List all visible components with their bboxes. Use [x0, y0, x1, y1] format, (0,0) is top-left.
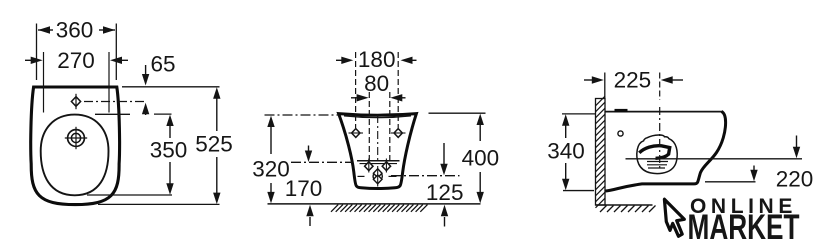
svg-text:340: 340: [547, 139, 585, 164]
hole centreline 180 right: [397, 52, 399, 128]
dimension 125: [426, 143, 464, 227]
drain vertical centreline: [659, 107, 661, 171]
svg-text:170: 170: [285, 176, 323, 201]
dimension 270 extension line left: [43, 52, 45, 113]
drain trap thick band: [639, 146, 669, 159]
front-view centreline: [377, 115, 379, 164]
upper fixing hole right: [391, 129, 406, 138]
dimension 340 top reference line: [562, 113, 596, 115]
dimension 170: [285, 146, 323, 227]
mounting hole diamond: [71, 94, 80, 109]
dimension 525: [195, 87, 233, 204]
svg-text:MARKET: MARKET: [688, 207, 800, 247]
svg-text:270: 270: [57, 48, 95, 73]
bottom level arrow: [750, 166, 757, 182]
basin shelf line: [360, 163, 398, 165]
svg-text:65: 65: [150, 52, 175, 77]
drain centre cluster: [358, 166, 397, 187]
dimension 225 tick right: [659, 73, 661, 101]
drain dash-dot extension right: [391, 175, 460, 177]
fixing bracket tab: [615, 109, 628, 113]
svg-text:350: 350: [150, 138, 188, 163]
small inlet hole: [618, 131, 623, 136]
hole centre dash-dot line: [84, 101, 147, 103]
svg-text:225: 225: [614, 67, 652, 92]
floor hatching: [600, 206, 656, 213]
tap hole symbol: [65, 127, 87, 149]
svg-text:180: 180: [358, 47, 396, 72]
outer bottom tangent line: [98, 203, 220, 205]
basin top tangent line segment a: [95, 113, 130, 115]
dimension 360 extension line right: [115, 24, 117, 81]
dimension 270: [25, 48, 128, 73]
wall hatching: [596, 96, 606, 208]
rim dash-dot extension left: [265, 114, 340, 116]
dimension 350: [150, 115, 188, 195]
dimension 360: [38, 18, 115, 43]
bidet side-view front and bottom outline: [606, 111, 726, 191]
dimension 180: [336, 47, 417, 72]
wall section outline: [596, 99, 606, 206]
dimension 340: [547, 114, 585, 190]
lower fixing hole right: [382, 159, 390, 173]
bidet top-view inner basin oval: [41, 115, 109, 196]
dimension 340 bottom reference line: [563, 190, 594, 192]
basin bottom tangent line: [87, 194, 172, 196]
dimension 225: [584, 67, 683, 92]
svg-text:525: 525: [195, 132, 233, 157]
lower fixing hole left: [365, 159, 373, 173]
bidet top-view outer outline: [31, 87, 120, 205]
waterline dash-dot extension left: [291, 161, 353, 163]
floor line under wall: [596, 204, 653, 206]
logo cursor icon: [664, 199, 684, 236]
top edge extension right: [429, 112, 486, 114]
dimension 270 extension line right: [108, 52, 110, 113]
hole centreline 80 left: [368, 92, 370, 160]
bidet front-view outline: [339, 114, 417, 189]
svg-text:400: 400: [462, 146, 500, 171]
hole centreline 80 right: [389, 92, 391, 160]
dimension 225 tick left: [604, 73, 606, 99]
dimension 65: [142, 52, 176, 116]
front-view rim inner arc: [344, 116, 411, 118]
svg-text:80: 80: [364, 71, 389, 96]
drain trap outline: [637, 135, 677, 174]
top edge extension line: [122, 86, 220, 88]
drain trap rings: [647, 162, 668, 169]
dimension 400: [462, 114, 500, 204]
ground line: [268, 203, 481, 205]
ground hatching: [331, 205, 428, 212]
bottom edge extension line: [705, 181, 756, 183]
svg-text:125: 125: [426, 180, 464, 205]
basin top tangent line segment b: [154, 113, 172, 115]
basin waterline: [357, 160, 400, 162]
svg-text:360: 360: [56, 18, 94, 43]
dimension 320: [252, 116, 290, 204]
hole centreline 180 left: [355, 52, 357, 128]
dimension 360 extension line left: [36, 24, 38, 81]
upper fixing hole left: [349, 129, 364, 138]
svg-text:220: 220: [776, 166, 814, 191]
bidet side-view top edge: [605, 111, 722, 113]
drain level arrow: [793, 136, 800, 159]
drain height line: [626, 158, 803, 160]
dimension 80: [351, 71, 406, 102]
